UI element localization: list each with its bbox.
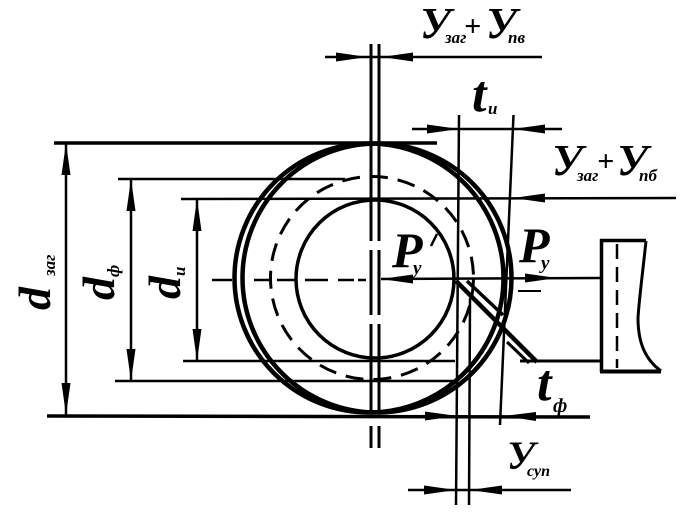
svg-text:у: у [539, 253, 550, 274]
svg-text:заг: заг [576, 166, 598, 185]
svg-text:t: t [537, 355, 553, 412]
svg-text:+: + [597, 145, 614, 178]
svg-text:ф: ф [104, 265, 123, 277]
svg-text:пб: пб [639, 166, 658, 185]
svg-text:t: t [472, 66, 488, 123]
svg-text:и: и [170, 267, 189, 276]
svg-text:и: и [488, 99, 497, 118]
svg-text:заг: заг [40, 255, 59, 277]
svg-text:суп: суп [527, 463, 550, 480]
svg-text:+: + [464, 10, 481, 43]
svg-text:ф: ф [553, 395, 567, 417]
svg-text:d: d [139, 275, 190, 299]
svg-text:d: d [73, 276, 124, 300]
svg-text:d: d [9, 286, 60, 310]
svg-text:пв: пв [508, 28, 525, 47]
svg-text:у: у [411, 258, 422, 279]
